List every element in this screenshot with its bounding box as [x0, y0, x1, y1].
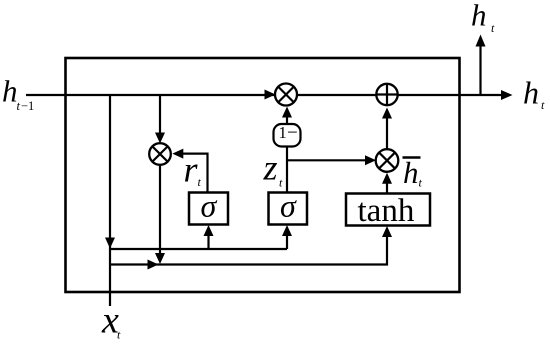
arrowhead into adder bottom — [382, 108, 392, 119]
wire up into sigma(r) — [207, 231, 209, 249]
wire up into sigma(z) — [286, 231, 288, 249]
wire one-minus to update multiplier — [286, 113, 288, 124]
arrowhead into candidate multiplier left — [365, 155, 376, 165]
arrowhead into update multiplier bottom — [282, 107, 292, 118]
arrowhead right on bus line2 — [148, 260, 159, 270]
arrowhead into tanh bottom — [382, 226, 392, 237]
wire z vertical below one-minus — [286, 147, 288, 193]
svg-text:σ: σ — [280, 188, 297, 224]
arrowhead down onto x_t bus at (160,264) — [155, 253, 165, 264]
svg-text:z: z — [263, 148, 278, 188]
wire bus line1 (to sigma gates) — [110, 248, 287, 250]
svg-text:σ: σ — [201, 188, 218, 224]
arrowhead into update multiplier left — [265, 90, 276, 100]
label z_t — [263, 148, 284, 190]
sigma box (reset gate) — [189, 188, 228, 225]
label h_{t-1} — [2, 74, 34, 114]
wire branch down at x=160 to reset multiplier — [159, 95, 161, 137]
sigma box (update gate) — [269, 188, 308, 225]
svg-text:1: 1 — [279, 123, 287, 142]
svg-text:h: h — [2, 74, 18, 109]
arrowhead into reset multiplier right — [172, 149, 183, 159]
label r_t — [184, 150, 202, 190]
label h-bar_t — [403, 155, 423, 190]
arrowhead output h_t right — [501, 90, 513, 100]
svg-text:−: − — [287, 122, 298, 143]
wire z to candidate multiplier — [287, 159, 370, 161]
arrowhead into reset multiplier top — [155, 133, 165, 144]
wire h_{t-1} main horizontal — [26, 94, 502, 96]
wire from sigma(r) elbow to reset multiplier — [178, 154, 208, 192]
svg-text:−1: −1 — [21, 99, 34, 113]
svg-text:h: h — [403, 155, 419, 190]
svg-text:r: r — [184, 150, 199, 190]
wire candidate multiplier to adder — [386, 114, 388, 150]
outer box (GRU cell boundary) — [66, 58, 460, 292]
adder circle ⊕ — [376, 84, 397, 105]
arrowhead into sigma(r) bottom — [204, 225, 214, 236]
multiplier circle (reset gate) ⊗ — [149, 143, 171, 165]
one-minus rounded box — [274, 122, 301, 146]
arrowhead down onto lower bus at (110,248) — [105, 238, 115, 249]
svg-text:h: h — [523, 75, 539, 111]
multiplier circle (candidate) ⊗ — [376, 149, 399, 172]
wire tanh to candidate multiplier — [386, 180, 388, 194]
svg-text:t: t — [17, 99, 21, 113]
tanh box — [346, 193, 430, 229]
arrowhead into candidate multiplier bottom — [382, 173, 392, 184]
multiplier circle (update gate) ⊗ on main line — [275, 84, 297, 106]
wire branch down at x=110 (h_{t-1}/x_t vertical) — [109, 95, 111, 306]
arrowhead into sigma(z) bottom — [282, 225, 292, 236]
wire bus line2 (x_t to tanh) — [110, 232, 387, 265]
svg-text:tanh: tanh — [358, 193, 415, 229]
arrowhead output h_t top — [476, 35, 486, 47]
wire output branch up h_t — [479, 46, 481, 95]
label h_t right output — [523, 75, 545, 113]
svg-text:h: h — [471, 0, 487, 33]
label x_t — [101, 300, 121, 342]
label h_t top — [471, 0, 495, 35]
wire reset multiplier output down — [159, 165, 161, 258]
